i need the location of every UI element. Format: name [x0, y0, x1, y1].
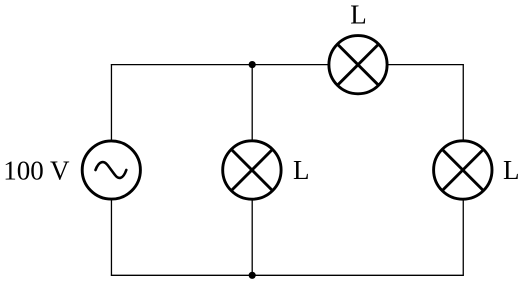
- AC source V1 circle: [82, 141, 140, 199]
- wire left vertical lower: source bottom to bottom-left corner: [110, 199, 112, 276]
- wire middle vertical lower: lamp L2 to bottom junction: [251, 199, 253, 276]
- svg-text:100 V: 100 V: [3, 155, 70, 185]
- svg-text:L: L: [293, 155, 310, 185]
- wire middle vertical upper: top junction to lamp L2: [251, 65, 253, 142]
- wire top-left: top rail from left corner to top junction: [111, 64, 252, 66]
- wire top-mid: junction to lamp L1 left terminal: [252, 64, 330, 66]
- lamp L3 circle (right branch): [434, 141, 492, 199]
- lamp L2 cross stroke 2: [231, 149, 272, 190]
- lamp L1 cross stroke 2: [337, 44, 378, 85]
- lamp L1 cross stroke 1: [337, 44, 378, 85]
- lamp L3 cross stroke 1: [442, 149, 483, 190]
- lamp L2 cross stroke 1: [231, 149, 272, 190]
- wire right vertical upper: top-right corner to lamp L3: [462, 64, 464, 142]
- lamp L3 cross stroke 2: [442, 149, 483, 190]
- lamp L2 circle (middle branch): [223, 141, 281, 199]
- lamp L1 circle (top branch): [329, 36, 387, 94]
- node: top junction dot: [249, 61, 256, 68]
- wire right vertical lower: lamp L3 to bottom-right corner: [462, 199, 464, 276]
- wire left vertical upper: corner down to source top: [110, 64, 112, 142]
- node: bottom junction dot: [249, 272, 256, 279]
- wire bottom rail: [111, 274, 464, 276]
- svg-text:L: L: [350, 0, 367, 30]
- svg-text:L: L: [503, 155, 520, 185]
- wire top-right: lamp L1 right terminal to top-right corner: [387, 64, 464, 66]
- AC source V1 sine symbol: [96, 162, 127, 178]
